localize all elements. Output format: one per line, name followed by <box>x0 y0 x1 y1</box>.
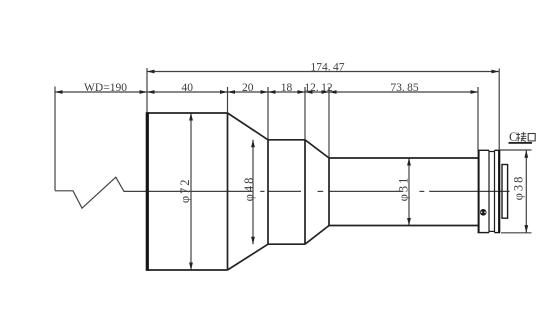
svg-text:73. 85: 73. 85 <box>390 82 418 94</box>
svg-text:20: 20 <box>242 82 254 94</box>
svg-text:φ31: φ31 <box>397 176 411 202</box>
svg-text:φ48: φ48 <box>242 176 256 202</box>
svg-text:C: C <box>509 130 517 144</box>
svg-text:WD=190: WD=190 <box>84 82 127 94</box>
svg-text:12. 12: 12. 12 <box>304 82 332 94</box>
svg-text:φ72: φ72 <box>178 177 192 203</box>
svg-text:174. 47: 174. 47 <box>311 61 345 73</box>
svg-text:40: 40 <box>182 82 194 94</box>
svg-text:φ38: φ38 <box>511 175 525 201</box>
svg-text:18: 18 <box>281 82 293 94</box>
